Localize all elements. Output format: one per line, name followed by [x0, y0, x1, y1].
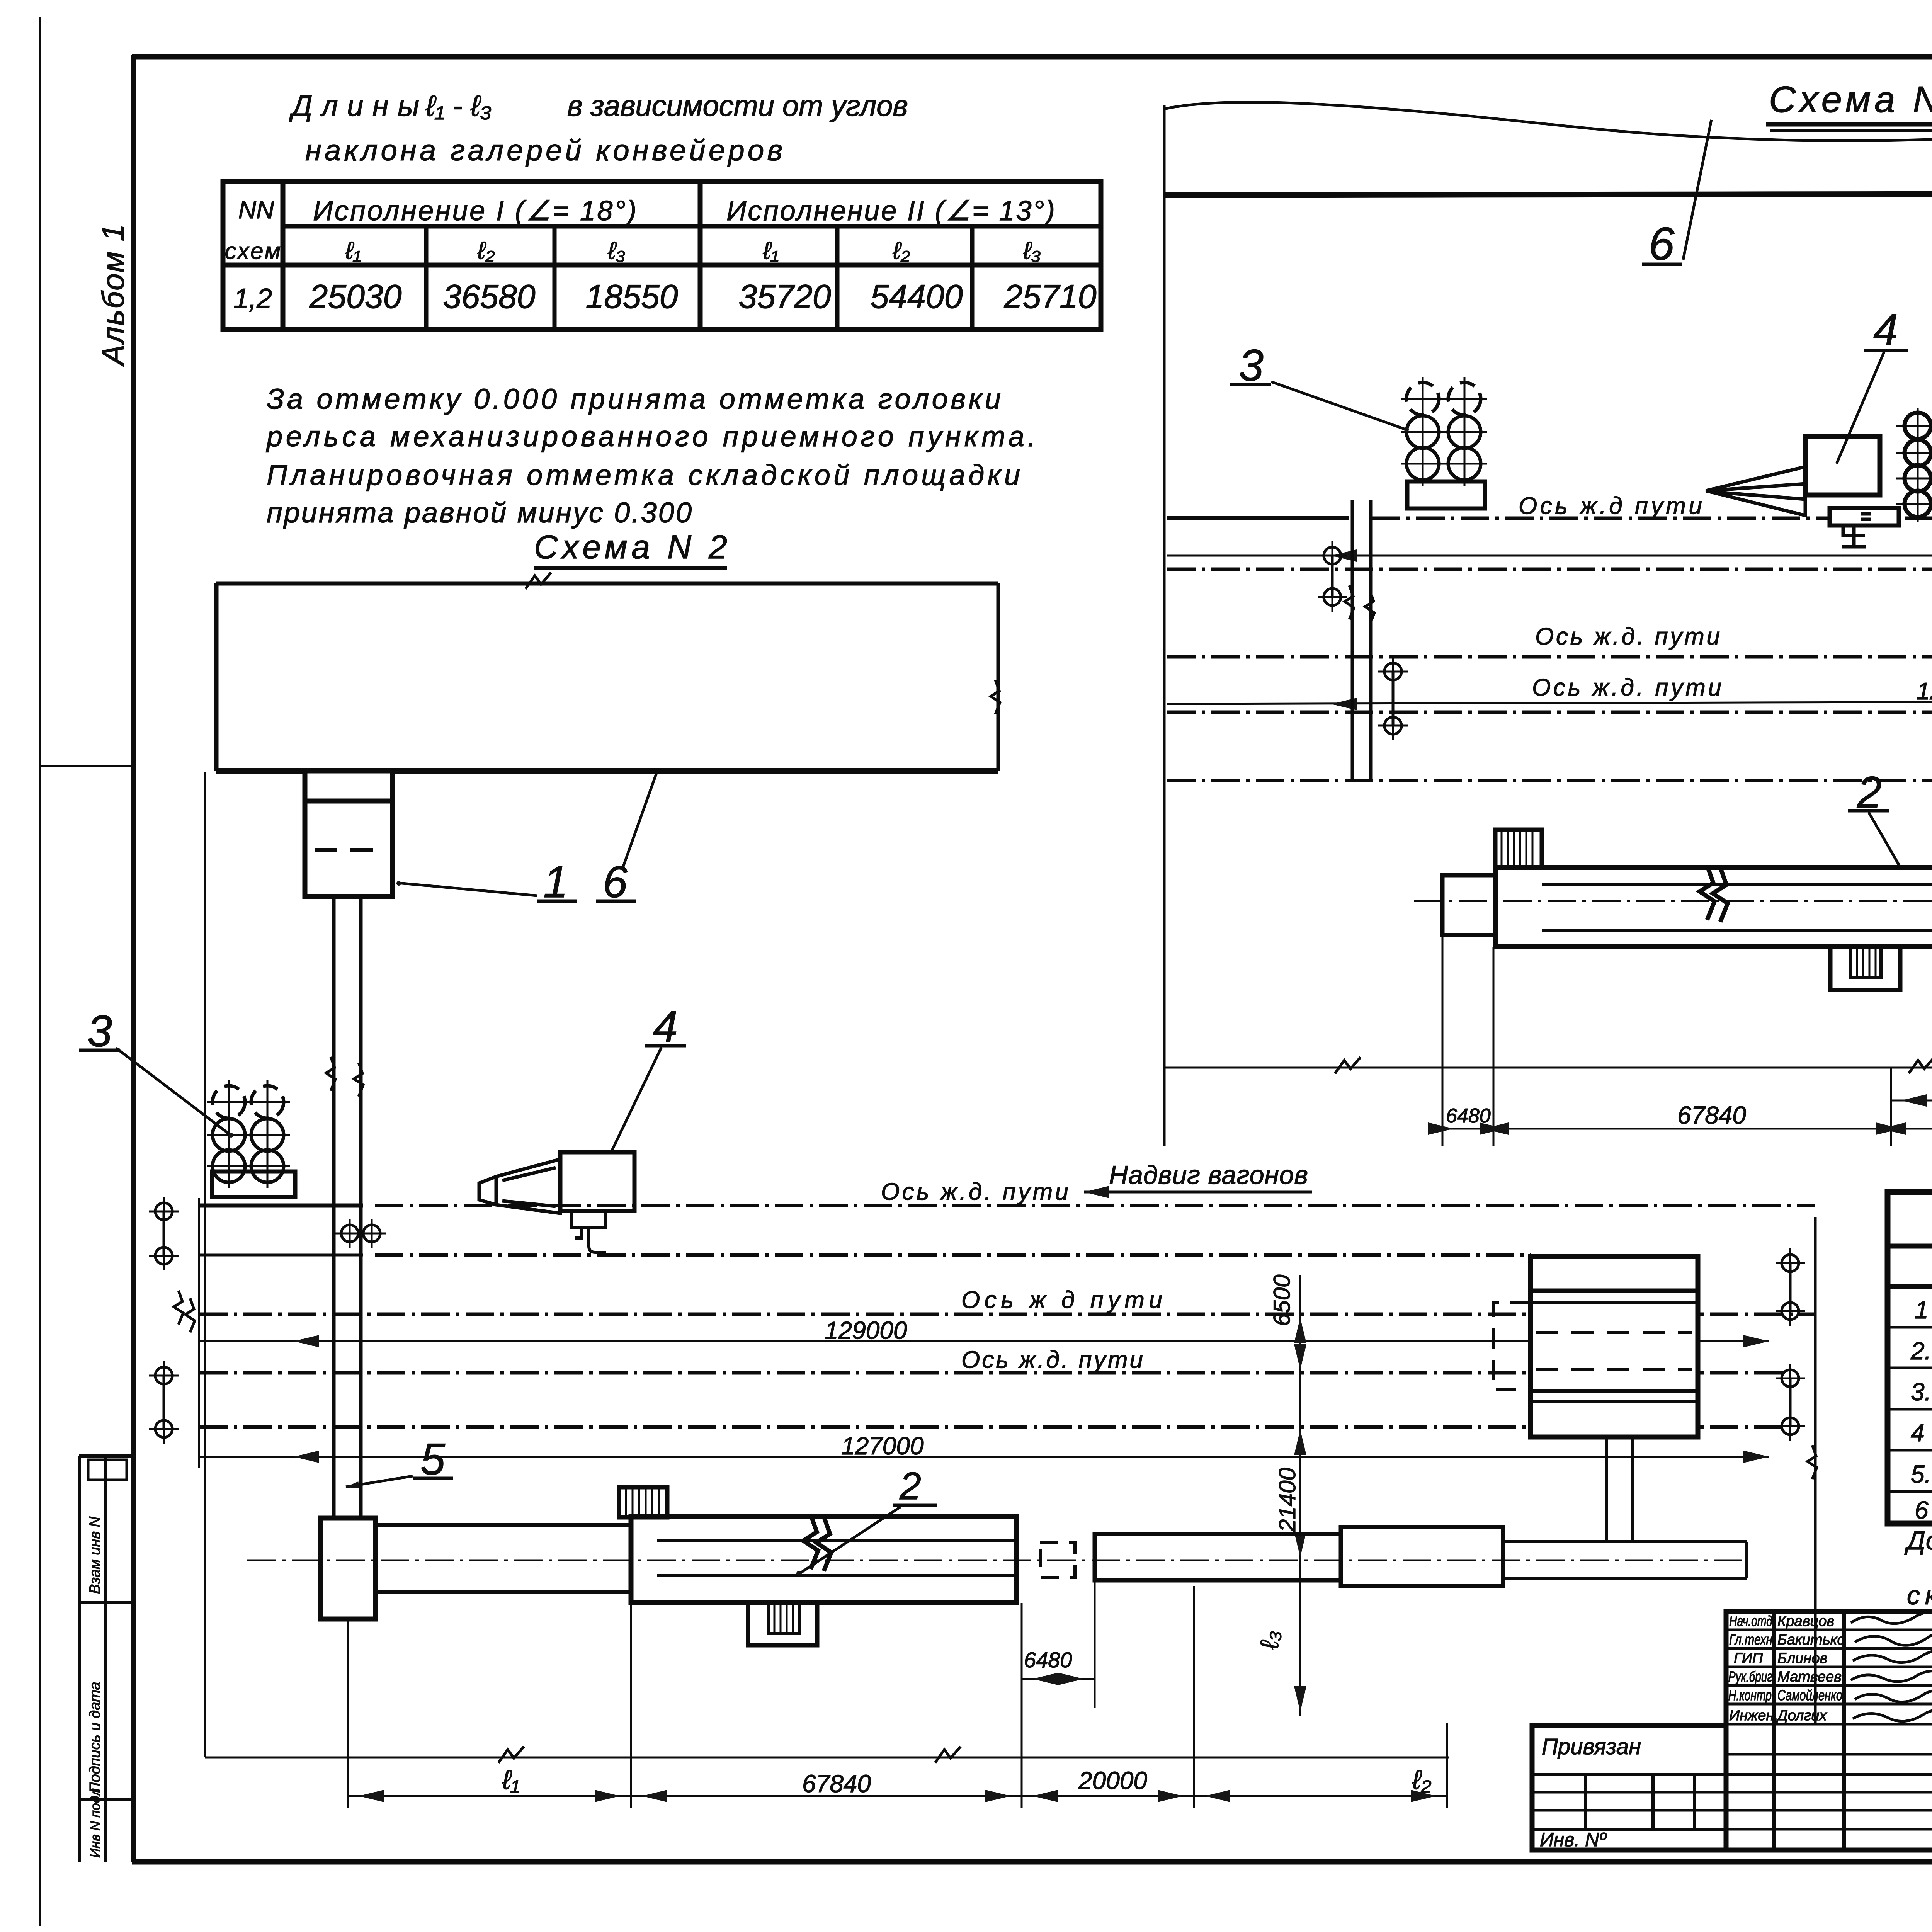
- svg-text:5.: 5.: [1911, 1460, 1931, 1488]
- schema2 conveyor tail: [1503, 1540, 1747, 1543]
- svg-text:Самойленко: Самойленко: [1777, 1687, 1842, 1704]
- storage 2 schema1 left cap: [1442, 875, 1495, 935]
- schema1 dim line l1: [1891, 1100, 1932, 1102]
- schema2 track C: [199, 1313, 1815, 1316]
- storage 2 schema2 main band: [631, 1517, 1016, 1603]
- table divider I/II: [698, 182, 703, 329]
- svg-text:4: 4: [1873, 305, 1898, 355]
- schema2 left boundary vertical: [198, 1198, 200, 1468]
- svg-text:54400: 54400: [870, 278, 963, 315]
- receiving building schema2: [1531, 1257, 1698, 1437]
- svg-text:Привязан: Привязан: [1542, 1734, 1641, 1759]
- svg-text:Бакитько: Бакитько: [1777, 1632, 1845, 1648]
- track B axis: [1167, 568, 1932, 571]
- svg-text:6480: 6480: [1024, 1648, 1072, 1672]
- svg-text:Инв. Nº: Инв. Nº: [1540, 1829, 1607, 1850]
- svg-text:127000: 127000: [841, 1432, 924, 1460]
- schema2 right boundary: [1814, 1217, 1817, 1723]
- schema2 small wagon circles: [335, 1219, 364, 1248]
- signature squiggles: [1851, 1610, 1932, 1721]
- schema2 bottom dim chain extensions: [347, 1619, 349, 1808]
- storage 2 schema1 main band: [1495, 867, 1932, 947]
- svg-text:ℓ₁: ℓ₁: [345, 236, 361, 264]
- border frame left: [131, 55, 136, 1862]
- schema2 right hooks: [1789, 1263, 1792, 1311]
- additives unit 4 schema2 box: [560, 1152, 634, 1211]
- dim line 127000: [1167, 700, 1932, 704]
- stamp box left strip: [88, 1460, 127, 1480]
- svg-text:Н.контр: Н.контр: [1728, 1687, 1772, 1704]
- svg-text:ℓ₁: ℓ₁: [763, 236, 779, 264]
- schema2 track E: [199, 1425, 1790, 1429]
- svg-text:Исполнение I (∠= 18°): Исполнение I (∠= 18°): [313, 196, 636, 226]
- schema2 conveyor from junction: [376, 1523, 631, 1527]
- track A axis: [1167, 516, 1349, 520]
- svg-text:1,2: 1,2: [233, 283, 272, 314]
- svg-text:в зависимости от углов: в зависимости от углов: [567, 90, 908, 122]
- svg-text:Ось ж д пути: Ось ж д пути: [961, 1287, 1162, 1313]
- svg-text:2: 2: [899, 1464, 921, 1508]
- svg-text:67840: 67840: [1677, 1101, 1746, 1129]
- signature texts: [1728, 1613, 1845, 1724]
- svg-text:6: 6: [1915, 1496, 1929, 1524]
- svg-text:Подпись и дата: Подпись и дата: [87, 1682, 103, 1793]
- title block signature table outline: [1726, 1611, 1932, 1850]
- schema2 track D: [199, 1371, 1790, 1375]
- svg-text:21400: 21400: [1274, 1468, 1300, 1532]
- cement storage 3 base schema1: [1407, 481, 1485, 509]
- svg-text:Долгих: Долгих: [1776, 1708, 1827, 1724]
- schema 1 title underline: [1766, 122, 1932, 127]
- svg-text:Матвеев: Матвеев: [1777, 1669, 1842, 1685]
- schema2 narrow conveyor section: [1095, 1534, 1341, 1580]
- gallery 5 schema2 from building1: [332, 896, 336, 1518]
- svg-text:Нач.отд: Нач.отд: [1729, 1613, 1772, 1629]
- explication row lines: [1888, 1326, 1932, 1329]
- svg-text:35720: 35720: [738, 278, 831, 315]
- schema1 dim chain extensions: [1442, 935, 1444, 1146]
- svg-text:ℓ₁: ℓ₁: [502, 1765, 520, 1795]
- additives unit 4 pipe symbol: [1830, 508, 1899, 526]
- building 6 band schema2 top: [216, 582, 998, 586]
- svg-text:схем: схем: [225, 238, 281, 264]
- table header row line: [283, 224, 1101, 229]
- svg-text:Гл.техн: Гл.техн: [1729, 1632, 1772, 1648]
- svg-text:Блинов: Блинов: [1777, 1650, 1827, 1667]
- svg-text:2.: 2.: [1910, 1337, 1931, 1365]
- cement storage 3 schema2: [213, 1086, 284, 1182]
- storage 2 schema1 axis: [1414, 900, 1932, 902]
- svg-text:Инжен.: Инжен.: [1729, 1708, 1778, 1724]
- fold tick left edge: [41, 765, 133, 767]
- storage 2 schema1 lower protrusion: [1830, 947, 1900, 990]
- building 6 band schema2 left edge: [214, 583, 219, 771]
- svg-text:1: 1: [1915, 1296, 1929, 1324]
- schema2 dim line 129000: [199, 1340, 1769, 1342]
- explication title row line: [1888, 1244, 1932, 1249]
- leader 6: [1683, 120, 1711, 260]
- svg-text:ℓ₃: ℓ₃: [1255, 1631, 1284, 1650]
- schema2 track A: [199, 1204, 363, 1208]
- svg-text:Ось ж.д пути: Ось ж.д пути: [1519, 493, 1702, 519]
- svg-text:Допускается расположение поз: Допускается расположение поз. 3;4 на Ж.Д…: [1904, 1526, 1932, 1555]
- schema2 6480 sub dimension: [1021, 1603, 1023, 1708]
- storage 2 schema2 break marks: [803, 1515, 818, 1569]
- svg-text:ℓ₃: ℓ₃: [1023, 236, 1041, 264]
- left gallery pair s1: [1351, 500, 1354, 781]
- svg-text:Исполнение II (∠= 13°): Исполнение II (∠= 13°): [726, 196, 1055, 226]
- schema1 lower boundary line: [1165, 1067, 1932, 1069]
- additives unit 4 schema1 tractor nose: [1706, 467, 1805, 515]
- lengths table frame: [223, 182, 1101, 329]
- storage 2 schema2 drive house: [619, 1487, 667, 1517]
- schema2 main dim line: [348, 1795, 1447, 1797]
- cement storage 3 schema1: [1406, 383, 1481, 480]
- svg-text:Ось ж.д. пути: Ось ж.д. пути: [961, 1347, 1143, 1373]
- svg-text:ℓ₂: ℓ₂: [892, 236, 910, 264]
- svg-text:ℓ₂: ℓ₂: [1412, 1765, 1432, 1795]
- table sub col lines: [424, 226, 429, 329]
- explication header row line: [1888, 1284, 1932, 1289]
- table subheader row line: [223, 263, 1101, 268]
- schema1 main dim line: [1442, 1128, 1932, 1130]
- cement storage 3 base schema2: [212, 1172, 295, 1197]
- svg-text:ГИП: ГИП: [1734, 1650, 1763, 1667]
- svg-text:Альбом 1: Альбом 1: [96, 224, 130, 367]
- schema2 dim line 127000: [199, 1456, 1769, 1458]
- schema2 wider conveyor section: [1341, 1527, 1503, 1586]
- svg-text:Ось ж.д. пути: Ось ж.д. пути: [1535, 623, 1720, 650]
- svg-text:За отметку 0.000 принята отмет: За отметку 0.000 принята отметка головки: [267, 383, 1001, 415]
- svg-text:4: 4: [1911, 1419, 1925, 1447]
- additives unit 4 schema1 box: [1805, 437, 1880, 495]
- svg-text:25030: 25030: [309, 278, 401, 315]
- scan edge left: [39, 17, 41, 1926]
- svg-text:Длины: Длины: [289, 90, 419, 122]
- schema 1 left boundary: [1163, 105, 1166, 1146]
- signature columns: [1772, 1611, 1776, 1850]
- schema2 storage axis: [247, 1560, 1747, 1561]
- building 6 band schema2 right edge: [997, 583, 1000, 771]
- storage 2 schema2 lower protrusion: [748, 1603, 817, 1645]
- svg-text:ℓ₃: ℓ₃: [607, 236, 626, 264]
- signature row lines: [1726, 1629, 1932, 1631]
- storage 2 schema1 break marks: [1700, 866, 1714, 920]
- schema2 dashed gap square: [1040, 1543, 1075, 1577]
- svg-text:67840: 67840: [802, 1770, 871, 1798]
- svg-text:127000: 127000: [1917, 678, 1932, 705]
- svg-text:рельса механизированного прием: рельса механизированного приемного пункт…: [266, 420, 1036, 452]
- svg-text:Инв N подл: Инв N подл: [88, 1788, 103, 1858]
- svg-text:NN: NN: [238, 196, 274, 224]
- svg-text:3.: 3.: [1911, 1378, 1931, 1406]
- schema2 receiving left appendage: [1493, 1302, 1531, 1389]
- left hook circles s1: [1318, 541, 1347, 570]
- schema2 track B: [199, 1254, 363, 1257]
- svg-text:Кравцов: Кравцов: [1777, 1613, 1834, 1629]
- explication outer box: [1888, 1192, 1932, 1524]
- schema2 lower thin boundary: [204, 772, 206, 1757]
- wagons grid schema1: [1905, 413, 1932, 517]
- schema2 left hooks: [149, 1197, 179, 1226]
- svg-text:Ось ж.д. пути: Ось ж.д. пути: [881, 1179, 1068, 1205]
- dim line 129000: [1167, 555, 1932, 557]
- svg-text:36580: 36580: [443, 278, 535, 315]
- leader 1 schema2: [398, 883, 537, 896]
- border frame bottom: [132, 1859, 1932, 1865]
- svg-text:6500: 6500: [1269, 1275, 1295, 1326]
- privyazan grid: [1532, 1773, 1726, 1776]
- svg-text:25710: 25710: [1003, 278, 1096, 315]
- track E axis: [1167, 711, 1932, 714]
- svg-text:6: 6: [1649, 218, 1675, 270]
- svg-text:6480: 6480: [1446, 1105, 1491, 1127]
- svg-text:принята равной минус 0.300: принята равной минус 0.300: [267, 497, 692, 529]
- storage 2 schema1 drive house with comb: [1495, 830, 1542, 867]
- building 6 wavy top line: [1164, 102, 1932, 141]
- svg-text:ℓ₂: ℓ₂: [477, 236, 495, 264]
- svg-text:Схема N1: Схема N1: [1769, 79, 1932, 120]
- border frame top: [132, 54, 1932, 60]
- track C axis: [1167, 655, 1932, 659]
- svg-text:Планировочная отметка складско: Планировочная отметка складской площадки: [267, 459, 1020, 491]
- svg-text:ℓ₁ - ℓ₃: ℓ₁ - ℓ₃: [425, 90, 492, 122]
- svg-text:129000: 129000: [825, 1316, 907, 1344]
- svg-text:Рук.бриг: Рук.бриг: [1728, 1669, 1772, 1685]
- schema2 vertical dim chain: [1299, 1275, 1301, 1716]
- svg-text:18550: 18550: [585, 278, 678, 315]
- privyazan box: [1532, 1726, 1726, 1850]
- left margin strip lines: [78, 1456, 81, 1862]
- schema2 gallery below receiving: [1605, 1437, 1608, 1541]
- table col NN: [281, 182, 286, 329]
- svg-text:склада заполнителей: склада заполнителей: [1907, 1581, 1932, 1610]
- svg-text:Ось ж.д. пути: Ось ж.д. пути: [1532, 674, 1721, 701]
- building 6 bottom line: [1164, 193, 1932, 195]
- building 6 band schema2 bottom: [216, 768, 998, 774]
- track F axis: [1167, 779, 1932, 782]
- leader 6 schema2: [623, 772, 657, 867]
- svg-text:20000: 20000: [1078, 1767, 1147, 1794]
- building 1 schema2: [305, 771, 393, 896]
- additives unit 4 schema2 tractor nose: [479, 1159, 560, 1213]
- junction box schema2: [320, 1518, 376, 1619]
- additives unit 4 schema2 pipe symbol: [572, 1211, 606, 1252]
- svg-text:Взам инв N: Взам инв N: [87, 1516, 103, 1594]
- svg-text:Надвиг вагонов: Надвиг вагонов: [1109, 1160, 1308, 1190]
